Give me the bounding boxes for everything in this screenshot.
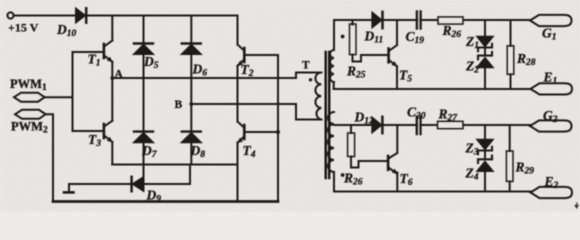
ground — [64, 184, 74, 192]
wire top secondary to E1 rail — [333, 82, 335, 89]
wire T5 collector — [396, 20, 398, 45]
primary polarity dot — [309, 78, 312, 81]
transistor T2 — [237, 45, 244, 67]
resistor R26 horizontal — [438, 17, 463, 24]
output tag E2 — [531, 187, 573, 198]
zener Z4 — [478, 152, 493, 192]
wire T3 emitter drop — [111, 142, 113, 165]
resistor R26 vertical — [348, 125, 388, 168]
bottom secondary winding — [328, 112, 334, 172]
node A — [110, 76, 114, 80]
wire gate2 top rail — [334, 124, 530, 126]
transistor T6 — [388, 153, 398, 174]
wire T5 emitter — [396, 66, 398, 89]
zener Z2 — [478, 49, 493, 89]
transformer primary lead B step — [296, 104, 321, 120]
junction dot riser T4 base — [276, 130, 280, 134]
wire T2 collector drop — [237, 16, 239, 45]
wire E2 rail — [334, 191, 531, 193]
wire D9 line left — [69, 183, 131, 185]
wire top rail left — [14, 15, 76, 17]
transistor T3 — [104, 121, 113, 143]
wire E1 rail — [334, 88, 531, 90]
transformer primary winding — [315, 73, 321, 120]
transformer primary lead A step — [296, 73, 321, 79]
wire T4 base to riser — [245, 131, 278, 133]
wire T6 collector — [396, 125, 398, 152]
wire G2 stub — [529, 125, 531, 126]
diode D6 — [182, 16, 201, 105]
diode D11 — [372, 12, 382, 28]
wire D9 line right with riser to bridge rail — [144, 165, 191, 185]
wire D7 leg to D9 line — [143, 165, 145, 185]
node B — [189, 102, 193, 106]
PWM2 input tag — [15, 110, 46, 119]
capacitor C19 gap — [418, 11, 419, 29]
zener Z3 — [478, 125, 493, 154]
transistor T4 — [237, 122, 244, 144]
resistor R29 — [506, 125, 513, 192]
diode D12 — [372, 117, 382, 133]
secondary1 polarity dot — [341, 35, 345, 39]
output tag E1 — [531, 83, 573, 94]
wire T4 emitter drop to bottom rail — [237, 143, 239, 202]
transistor T5 — [389, 45, 398, 67]
transistor T1 — [104, 41, 113, 63]
capacitor C20 — [417, 117, 421, 135]
wire T1 collector drop — [111, 16, 113, 41]
PWM1 input tag — [14, 93, 45, 102]
wire top secondary to gate1 rail — [333, 20, 335, 50]
transformer core — [326, 52, 330, 178]
resistor R27 — [438, 121, 464, 128]
diode D8 — [182, 104, 201, 165]
scan corner mark bottom right — [575, 203, 579, 208]
diode D10 — [76, 8, 86, 22]
wire T6 emitter — [396, 173, 398, 192]
output tag G1 — [530, 15, 572, 26]
diode D9 — [132, 177, 144, 191]
wire bridge bottom rail — [112, 164, 237, 166]
wire T4 collector from A rail — [237, 78, 239, 122]
wire T2 emitter to A rail — [237, 66, 239, 78]
top secondary winding — [330, 50, 334, 82]
resistor R25 — [350, 20, 388, 62]
wire base bus T1-T3 — [73, 52, 104, 131]
diode D5 — [134, 16, 153, 79]
wire bottom secondary stub to E2 rail — [333, 172, 335, 192]
capacitor C20 gap — [418, 116, 419, 134]
wire A rail — [112, 77, 296, 79]
output tag G2 — [530, 120, 572, 131]
capacitor C19 — [417, 12, 421, 29]
terminal +15V — [7, 12, 13, 18]
polarity dot secondary2 — [341, 173, 345, 177]
wire B rail — [191, 103, 296, 105]
wire PWM1 to base bus — [45, 96, 73, 98]
zener Z1 — [478, 20, 493, 51]
wire bottom rail and riser — [245, 55, 278, 202]
diode D7 — [134, 78, 153, 165]
wire top rail right — [87, 15, 237, 17]
wire gate1 top rail — [334, 19, 530, 21]
wire node A leg — [111, 62, 113, 121]
wire PWM2 down to bottom rail — [46, 114, 53, 201]
resistor R28 — [507, 20, 514, 89]
